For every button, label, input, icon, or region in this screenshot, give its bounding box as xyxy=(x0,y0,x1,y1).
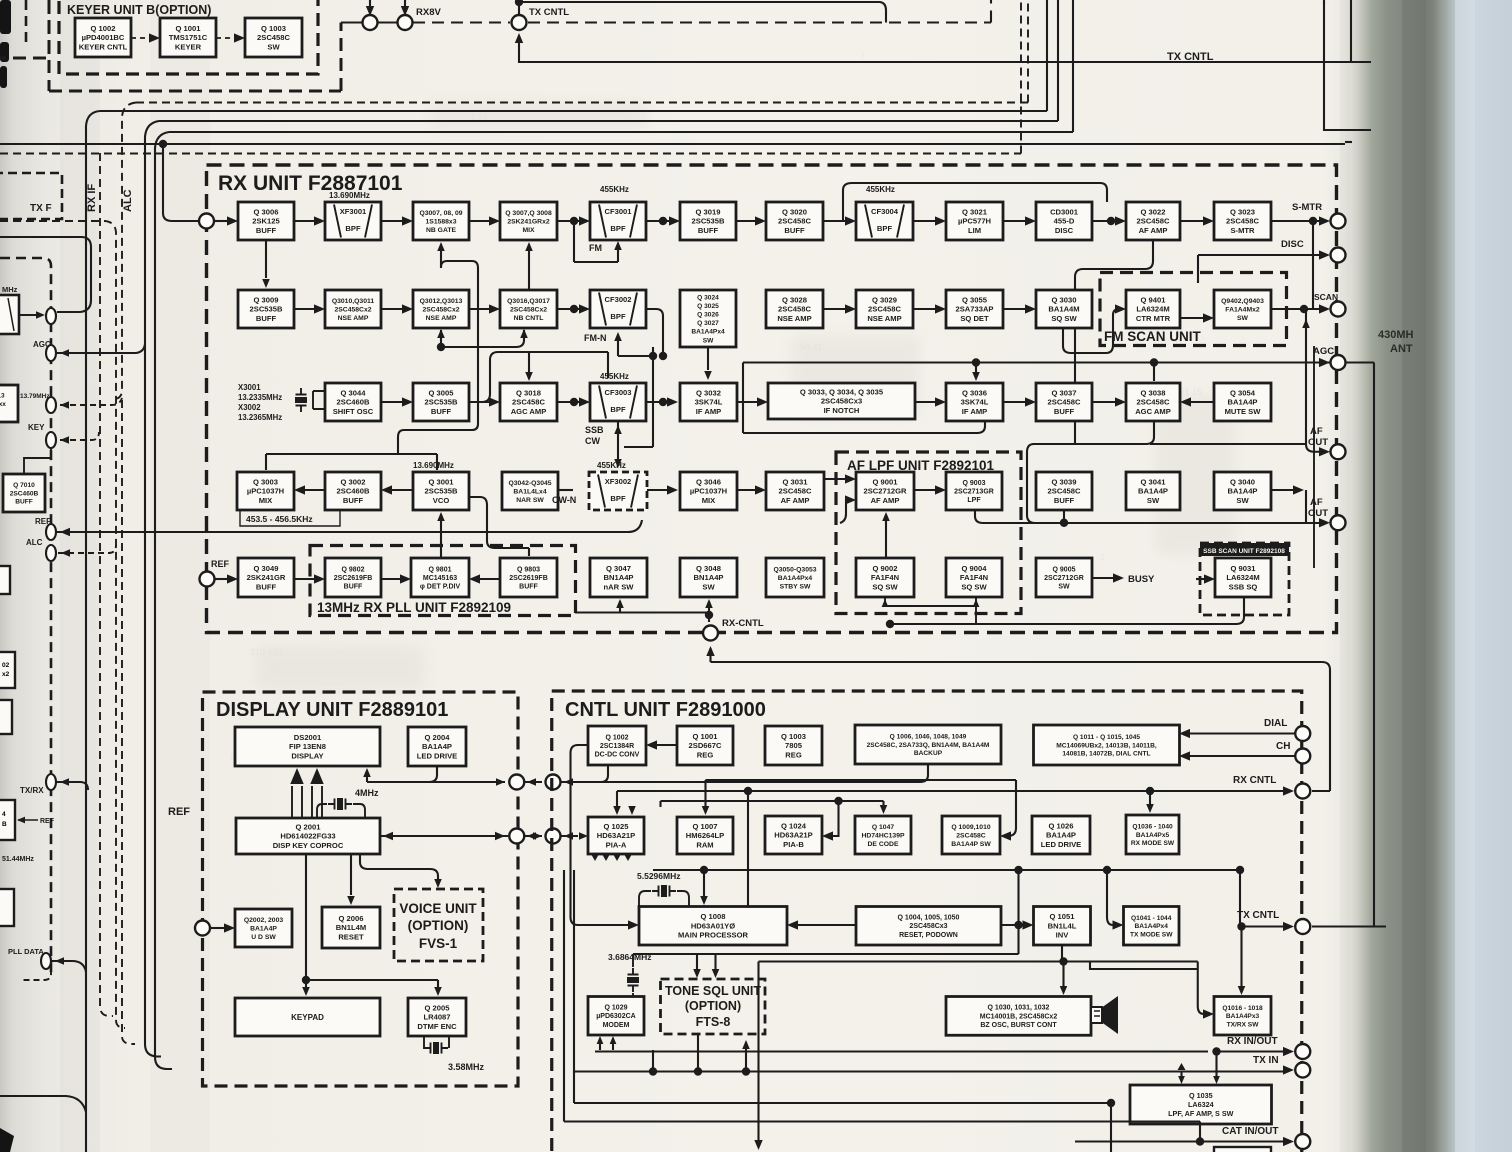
arrowhead down into KEYPAD top xyxy=(302,987,310,996)
svg-text:Q 1009,1010: Q 1009,1010 xyxy=(951,824,991,831)
wire Q3022 bottom drop to AF path xyxy=(1075,240,1153,444)
svg-text:BUFF: BUFF xyxy=(343,496,364,505)
svg-text:2: 2 xyxy=(1100,552,1105,562)
wire CF3003 in xyxy=(557,401,580,403)
svg-text:RAM: RAM xyxy=(696,840,713,849)
svg-text:BA1A4Px5: BA1A4Px5 xyxy=(1136,832,1170,839)
svg-text:DC-DC CONV: DC-DC CONV xyxy=(595,752,640,759)
wire Q1026 area to Q1016 xyxy=(1134,969,1198,977)
svg-text:TX/RX: TX/RX xyxy=(20,786,44,795)
arrowhead up into Q3047 xyxy=(616,599,624,608)
junction before CF3003 xyxy=(570,398,578,406)
svg-text:RX MODE SW: RX MODE SW xyxy=(1131,840,1175,847)
arrowhead into Q1008 right xyxy=(787,920,798,929)
wire Q3021-CD3001 arrowhead xyxy=(1025,216,1036,225)
svg-text:Q 3003: Q 3003 xyxy=(253,478,278,487)
junction CF3002 out xyxy=(649,352,657,360)
svg-text:Q 1035: Q 1035 xyxy=(1189,1091,1213,1100)
TX/RX switch Q1016-1018 xyxy=(1214,997,1271,1036)
wire NB CNTL up to MIX xyxy=(528,250,530,290)
junction after CF3003 xyxy=(659,398,667,406)
svg-text:nAR SW: nAR SW xyxy=(604,582,635,591)
svg-text:ALC: ALC xyxy=(26,538,43,547)
svg-text:SW: SW xyxy=(703,337,714,344)
wire CAT line xyxy=(1075,1122,1286,1142)
buffer Q9802 2SC2619FB xyxy=(325,558,381,597)
svg-text:FA1F4N: FA1F4N xyxy=(871,573,899,582)
svg-text:AF LPF UNIT F2892101: AF LPF UNIT F2892101 xyxy=(847,458,995,473)
arrowhead into Q9402 xyxy=(1203,313,1214,322)
junction RX IN/OUT xyxy=(1212,1047,1220,1055)
vertical wire right column x1314 xyxy=(1313,346,1315,568)
svg-text:Q 2004: Q 2004 xyxy=(425,733,451,742)
left connector oval KEY xyxy=(46,432,56,448)
left cut-off box d xyxy=(0,652,15,688)
connector circle c2 xyxy=(546,829,561,844)
Q1025 bottom bus arrows xyxy=(591,854,632,861)
wire DISC branch down to FM scan xyxy=(1197,255,1199,283)
wire IFNOTCH-Q3036 xyxy=(915,401,936,403)
svg-text:2SA733AP: 2SA733AP xyxy=(956,305,994,314)
svg-text:AGC: AGC xyxy=(1313,346,1334,357)
CAT IN/OUT connector xyxy=(1295,1134,1310,1149)
svg-text:DIAL: DIAL xyxy=(1264,718,1287,729)
svg-text:BUFF: BUFF xyxy=(1054,407,1075,416)
wire NSE1-NSE2 arrowhead xyxy=(402,304,413,313)
svg-text:Q 1006, 1046, 1048, 1049: Q 1006, 1046, 1048, 1049 xyxy=(890,734,967,741)
arrowhead into Q9003 xyxy=(935,485,946,494)
wire Q3036 bottom loop xyxy=(743,421,985,433)
arrowhead into Q3038 xyxy=(1115,397,1126,406)
AF OUT 2 connector xyxy=(1331,515,1346,530)
big arrowhead into DS2001 a xyxy=(290,768,303,784)
AF OUT connector xyxy=(1331,444,1346,459)
ceramic filter CF3002 xyxy=(590,290,646,328)
svg-text:KEYPAD: KEYPAD xyxy=(291,1013,324,1022)
svg-text:XF3001: XF3001 xyxy=(340,207,367,216)
wire KEY dashed xyxy=(60,432,99,440)
wire Q3006-XF3001 arrowhead xyxy=(314,216,325,225)
dashed wire RX8V to TX CNTL connector xyxy=(413,21,510,23)
TX IN connector xyxy=(1295,1063,1310,1078)
AGC amp Q3018 2SC458C xyxy=(500,383,557,421)
svg-text:2SC458Cx2: 2SC458Cx2 xyxy=(510,306,547,313)
arrowhead into TONE top b xyxy=(712,969,720,978)
junction RX-CNTL xyxy=(705,611,713,619)
svg-text:FTS-8: FTS-8 xyxy=(696,1015,731,1029)
svg-text:SCAN: SCAN xyxy=(1314,292,1338,302)
wire TX CNTL connector down and right xyxy=(519,37,1371,62)
svg-text:CNTL UNIT F2891000: CNTL UNIT F2891000 xyxy=(565,699,766,721)
arrowhead into TX IN connector xyxy=(1283,1065,1294,1074)
svg-text:Q 9004: Q 9004 xyxy=(962,564,988,573)
wire Q3022-Q3023 xyxy=(1180,220,1204,222)
wire NAR SW to XF area xyxy=(558,489,573,491)
wire CF3003 out xyxy=(646,401,668,403)
wire Q3037 to Q3038 xyxy=(1092,401,1116,403)
arrowhead right into circle c1 xyxy=(495,832,505,840)
svg-text:Q 3031: Q 3031 xyxy=(783,478,809,487)
svg-text:ANT: ANT xyxy=(1390,343,1413,355)
svg-text:2SC458Cx2: 2SC458Cx2 xyxy=(334,306,371,313)
ceramic filter CF3004 xyxy=(856,202,913,240)
svg-text:BA1A4M: BA1A4M xyxy=(1048,305,1079,314)
switch Q9005 2SC2712GR xyxy=(1036,558,1092,597)
svg-text:TX IN: TX IN xyxy=(1253,1055,1279,1066)
svg-text:Q 3033, Q 3034, Q 3035: Q 3033, Q 3034, Q 3035 xyxy=(800,388,884,397)
svg-text:13MHz RX PLL UNIT F2892109: 13MHz RX PLL UNIT F2892109 xyxy=(317,600,511,615)
svg-text:PIA-A: PIA-A xyxy=(606,840,627,849)
svg-text:MIX: MIX xyxy=(702,496,716,505)
svg-text:µPC577H: µPC577H xyxy=(958,217,991,226)
svg-text:2SK125: 2SK125 xyxy=(252,217,280,226)
svg-text:Q 1029: Q 1029 xyxy=(605,1005,628,1012)
svg-text:CAT IN/OUT: CAT IN/OUT xyxy=(1222,1126,1278,1137)
buffer Q3037 2SC458C xyxy=(1036,383,1092,421)
svg-text:Q 3038: Q 3038 xyxy=(1141,389,1166,398)
connector circle c4 xyxy=(546,775,561,790)
wire Q3019-Q3020 arrowhead xyxy=(755,216,766,225)
arrowhead into NSE AMP2 bottom xyxy=(437,329,445,338)
wire Q2005 to crystal xyxy=(423,1036,449,1048)
arrowhead into Q3031 xyxy=(755,485,766,494)
svg-text:LR4087: LR4087 xyxy=(423,1013,450,1022)
arrowhead into Q3018 xyxy=(489,397,500,406)
svg-text:Q 3002: Q 3002 xyxy=(341,478,366,487)
wire AGC line xyxy=(743,361,1330,363)
svg-text:SW: SW xyxy=(1147,496,1160,505)
wire buzzer feed xyxy=(1062,962,1064,987)
wire c1 to c2 xyxy=(524,835,542,837)
wire Q9401 to Q9402 xyxy=(1180,317,1204,319)
DISPLAY UNIT dashed boundary xyxy=(203,692,519,1086)
arrowhead into S-MTR connector xyxy=(1319,216,1330,225)
svg-text:Q 9031: Q 9031 xyxy=(1231,564,1257,573)
svg-text:455KHz: 455KHz xyxy=(600,372,629,381)
svg-text:Q 9005: Q 9005 xyxy=(1053,566,1076,573)
svg-text:NSE AMP: NSE AMP xyxy=(426,315,457,322)
svg-text:CW: CW xyxy=(585,436,600,446)
wire bus to RX input xyxy=(163,144,199,221)
TX CNTL connector cntl xyxy=(1295,919,1310,934)
wire AGC drop to Q3036 xyxy=(975,363,977,373)
svg-text:Q 3055: Q 3055 xyxy=(962,296,988,305)
arrowhead into Q1047 top xyxy=(880,805,888,814)
svg-text:Q 1003: Q 1003 xyxy=(781,732,806,741)
TX mode switch Q1041-1044 xyxy=(1124,907,1180,946)
NB control Q3016 Q3017 xyxy=(500,290,557,328)
svg-text:PLL DATA: PLL DATA xyxy=(8,947,44,956)
limiter Q3021 uPC577H xyxy=(946,202,1003,240)
arrowhead into Q3038 right xyxy=(1180,397,1191,406)
ceramic filter CF3001 xyxy=(590,202,646,240)
outer dashed boundary around keyer xyxy=(49,0,341,91)
svg-text:Q 9001: Q 9001 xyxy=(873,478,899,487)
arrowhead into ALC oval xyxy=(61,549,70,557)
junction TX IN a xyxy=(649,1067,657,1075)
svg-text:LIM: LIM xyxy=(968,226,981,235)
svg-text:FA1F4N: FA1F4N xyxy=(960,573,988,582)
svg-text:OUT: OUT xyxy=(1308,437,1328,448)
svg-text:AF: AF xyxy=(1310,497,1323,508)
wire ram top bus y780 xyxy=(706,779,1017,781)
svg-text:Q 3007,Q 3008: Q 3007,Q 3008 xyxy=(505,210,552,217)
svg-text:BPF: BPF xyxy=(345,224,361,233)
underline 453.5 label bracket xyxy=(240,511,340,526)
arrowhead into Q1016 top xyxy=(1238,986,1246,995)
svg-text:3.58MHz: 3.58MHz xyxy=(448,1062,485,1072)
left cut-off BPF box xyxy=(0,295,19,334)
wire reset to Q1051 xyxy=(1001,924,1023,926)
svg-text:2SD667C: 2SD667C xyxy=(689,741,722,750)
DTMF encoder Q2005 LR4087 xyxy=(408,998,466,1036)
svg-text:MC14001B, 2SC458Cx2: MC14001B, 2SC458Cx2 xyxy=(980,1013,1058,1020)
svg-text:2SC458C: 2SC458C xyxy=(512,398,545,407)
dashed wire Q1002 to Q1001 xyxy=(131,37,150,39)
wire Q9001 to Q9003 xyxy=(914,489,936,491)
VOICE UNIT text xyxy=(399,901,477,951)
wire NSE2-NBCNTL xyxy=(469,308,490,310)
svg-text:2SC458C: 2SC458C xyxy=(868,305,901,314)
wire FM-N select xyxy=(618,336,653,356)
arrowhead into c3 xyxy=(496,778,505,786)
arrowhead Q3040 out xyxy=(1293,485,1304,494)
svg-text:Q 3036: Q 3036 xyxy=(962,389,987,398)
svg-text:13.79MHz: 13.79MHz xyxy=(20,393,50,400)
wire into Q3049 xyxy=(214,578,228,580)
wire XF3002 to Q3046 xyxy=(647,489,668,491)
arrowhead into TONE top a xyxy=(693,969,701,978)
modem Q1029 uPD6302CA xyxy=(588,997,644,1036)
arrowhead into SCAN connector xyxy=(1319,304,1330,313)
connector circle c1 xyxy=(509,829,524,844)
arrowhead into KEY oval xyxy=(60,436,69,444)
svg-text:Q 3009: Q 3009 xyxy=(254,296,279,305)
wire Q3006 down to Q3009 xyxy=(265,240,267,278)
svg-text:4MHz: 4MHz xyxy=(355,788,379,798)
wire Q3028-Q3029 arrowhead xyxy=(845,304,856,313)
svg-text:TX F: TX F xyxy=(30,203,52,214)
svg-text:51.44MHz: 51.44MHz xyxy=(2,856,34,863)
svg-text:TX MODE SW: TX MODE SW xyxy=(1130,931,1173,938)
junction y961 xyxy=(1059,957,1067,965)
svg-text:Q2002, 2003: Q2002, 2003 xyxy=(244,917,284,924)
TX IF unit corner box xyxy=(0,173,62,219)
double arrow Q1035 xyxy=(1178,1063,1186,1070)
buffer Q3019 2SC535B xyxy=(680,202,736,240)
svg-text:U D SW: U D SW xyxy=(251,934,276,941)
left cut-off box g xyxy=(0,889,14,926)
wire Q9005 to BUSY xyxy=(1092,577,1116,579)
svg-text:2SC458C: 2SC458C xyxy=(1137,217,1170,226)
svg-text:Q 1011 - Q 1015, 1045: Q 1011 - Q 1015, 1045 xyxy=(1073,734,1140,741)
svg-text:BUFF: BUFF xyxy=(784,226,805,235)
PIA-B Q1024 HD63A21P xyxy=(765,816,822,854)
svg-text:NB CNTL: NB CNTL xyxy=(514,315,544,322)
SCAN connector xyxy=(1331,302,1346,317)
faint scan bleed-through artifacts xyxy=(230,52,1202,762)
svg-text:2SC2712GR: 2SC2712GR xyxy=(1044,575,1084,582)
mixer Q3007 Q3008 2SK241GRx2 xyxy=(500,202,557,240)
svg-text:HD63A21P: HD63A21P xyxy=(774,831,812,840)
crystal 3.6864MHz xyxy=(627,968,639,992)
shift oscillator Q3044 2SC460B xyxy=(325,383,381,421)
svg-text:VOICE UNIT: VOICE UNIT xyxy=(399,901,477,916)
bus wire solid 4 (TX line) xyxy=(0,143,1345,145)
svg-text:Q 1047: Q 1047 xyxy=(872,824,895,831)
wire to Q1047 top xyxy=(882,801,884,806)
arrowhead into CF3001 xyxy=(579,216,590,225)
svg-text:2SC458Cx3: 2SC458Cx3 xyxy=(909,923,947,930)
arrowhead into Q3009 xyxy=(262,279,270,288)
svg-text:KEYER UNIT B(OPTION): KEYER UNIT B(OPTION) xyxy=(67,3,211,17)
wire crystal to Q1008 xyxy=(639,891,689,906)
wire SQ SW bottoms xyxy=(885,598,976,624)
arrowhead into Q2002 xyxy=(224,923,235,932)
LPF Q9003 2SC2713GR xyxy=(946,472,1002,510)
switch Q3041 BA1A4P xyxy=(1126,472,1180,510)
arrowhead into Q1009 right xyxy=(1000,831,1011,840)
arrowhead into Q9801 right xyxy=(469,574,480,583)
left connector oval PLL DATA xyxy=(41,953,51,969)
svg-text:BA1A4Px4: BA1A4Px4 xyxy=(691,329,725,336)
wire mode to SSB-CW xyxy=(624,446,653,448)
arrowhead up into Q3048 xyxy=(705,599,713,608)
svg-text:4: 4 xyxy=(2,811,6,818)
arrowhead into RX IN/OUT connector xyxy=(1283,1047,1294,1056)
arrowhead into Q3049 xyxy=(227,574,238,583)
junction above TX CNTL connector xyxy=(515,0,523,6)
main processor Q1008 HD63A01Y# xyxy=(639,907,787,946)
wire REF solid xyxy=(57,520,642,532)
bus wire dashed top xyxy=(136,0,1028,103)
RX input connector xyxy=(199,214,214,229)
wire long y961 xyxy=(759,962,1205,1015)
arrowhead into Q3006 xyxy=(227,216,238,225)
big arrowhead into DS2001 b xyxy=(310,768,323,784)
arrowhead down into RX8V connector xyxy=(401,6,409,16)
ceramic filter CF3003 xyxy=(590,383,646,421)
wire Q3029-Q3055 xyxy=(913,308,936,310)
svg-text:455KHz: 455KHz xyxy=(600,185,629,194)
svg-text:Q 9803: Q 9803 xyxy=(517,566,540,573)
buffer Q3020 2SC458C xyxy=(766,202,823,240)
arrowhead into Q3003 xyxy=(294,485,305,494)
svg-text:BA1A4Px4: BA1A4Px4 xyxy=(778,575,813,582)
svg-text:PIA-B: PIA-B xyxy=(783,840,804,849)
wire Q3009-NSE1 xyxy=(294,308,315,310)
wire Q3036-Q3037 arrowhead xyxy=(1025,397,1036,406)
left connector oval TX/RX xyxy=(46,774,56,790)
svg-text:Q 1001: Q 1001 xyxy=(176,24,202,33)
svg-text:2SC458C: 2SC458C xyxy=(257,33,290,42)
svg-text:FM SCAN UNIT: FM SCAN UNIT xyxy=(1104,329,1201,344)
wire oval a loop above xyxy=(0,237,91,312)
arrowhead down into connector a xyxy=(366,6,374,16)
svg-text:Q 3005: Q 3005 xyxy=(429,389,455,398)
arrowhead right into c2 xyxy=(533,832,542,840)
wire Q1002 to main proc xyxy=(571,745,630,925)
scanner edge marks top-left xyxy=(0,0,11,88)
svg-text:MAIN PROCESSOR: MAIN PROCESSOR xyxy=(678,931,749,940)
wire CD3001 to Q3022 xyxy=(1092,220,1116,222)
wire CF3004 input xyxy=(823,220,846,222)
svg-text:RX UNIT F2887101: RX UNIT F2887101 xyxy=(218,172,403,195)
svg-text:MIX: MIX xyxy=(522,227,535,234)
connector circle c3 xyxy=(509,775,524,790)
wire 13MHz dashed xyxy=(60,398,122,405)
junction below Q3039 xyxy=(1060,519,1068,527)
arrowhead bottom left cntl xyxy=(754,1140,762,1150)
svg-text:LED DRIVE: LED DRIVE xyxy=(417,751,458,760)
crystal filter XF3001 xyxy=(325,202,381,240)
wire x1107 to Q1041 xyxy=(1107,870,1113,925)
svg-text:KEY: KEY xyxy=(28,423,45,432)
svg-text:Q 3049: Q 3049 xyxy=(254,564,279,573)
left cut-off box f xyxy=(0,800,15,840)
arrowhead into KEYPAD xyxy=(305,995,307,997)
wire Q3022-Q3023 arrowhead xyxy=(1203,216,1214,225)
svg-text:2SC535B: 2SC535B xyxy=(425,487,458,496)
junction CF3001 out xyxy=(659,217,667,225)
svg-text:STBY SW: STBY SW xyxy=(780,583,811,590)
squelch switch Q3030 BA1A4M xyxy=(1036,290,1092,328)
mode switch Q3024-Q3027 xyxy=(680,290,736,347)
arrowhead into Q1002 xyxy=(646,740,657,749)
wire Q1001 to Q1002 xyxy=(656,744,677,746)
wire CF3002 in junction xyxy=(557,308,580,310)
svg-text:BZ OSC, BURST CONT: BZ OSC, BURST CONT xyxy=(980,1022,1057,1029)
wire tone bus y954 xyxy=(633,953,1019,955)
svg-text:BUSY: BUSY xyxy=(1128,574,1155,585)
svg-text:13.2365MHz: 13.2365MHz xyxy=(238,413,282,422)
svg-text:Q 3018: Q 3018 xyxy=(516,389,541,398)
wire AF line lower xyxy=(975,510,1296,523)
arrowhead into 13MHz oval xyxy=(60,401,69,409)
S-meter amp Q3023 2SC458C xyxy=(1214,202,1271,240)
crystal 3.58MHz xyxy=(424,1042,448,1054)
svg-text:Q 3019: Q 3019 xyxy=(696,208,721,217)
wire AGC stub left xyxy=(742,363,744,434)
13MHz RX PLL UNIT dashed boundary xyxy=(310,546,576,616)
svg-text:Q 2005: Q 2005 xyxy=(425,1004,451,1013)
svg-text:SW: SW xyxy=(267,42,280,51)
svg-text:2SC458C: 2SC458C xyxy=(1048,398,1081,407)
connector circle RX8V xyxy=(398,15,413,30)
svg-text:REG: REG xyxy=(785,750,802,759)
svg-text:Q1036 - 1040: Q1036 - 1040 xyxy=(1132,824,1173,831)
VCO Q3001 2SC535B xyxy=(413,472,469,510)
wire AF line y444 to right xyxy=(1150,443,1306,445)
svg-text:Q 3040: Q 3040 xyxy=(1230,478,1255,487)
arrowhead left into c4 xyxy=(564,778,573,786)
svg-text:BN1A4P: BN1A4P xyxy=(604,573,634,582)
wire Q7010 up xyxy=(24,448,51,474)
arrowhead left toward c1 xyxy=(527,832,536,840)
svg-text:X3002: X3002 xyxy=(238,403,261,412)
wire Q9802-Q9801 xyxy=(381,578,401,580)
svg-text:BPF: BPF xyxy=(877,224,893,233)
arrowhead into Q1025 top a xyxy=(613,806,621,815)
svg-text:SW: SW xyxy=(1236,496,1249,505)
wire Q3023 to S-MTR connector xyxy=(1271,220,1322,222)
svg-text:BACKUP: BACKUP xyxy=(914,750,943,757)
wire pia bus y791 xyxy=(617,790,748,792)
switch Q3048 BN1A4P xyxy=(680,558,737,597)
svg-text:Q 3023: Q 3023 xyxy=(1230,208,1255,217)
wire MIX to CF3001 with junction xyxy=(557,220,580,222)
RX mode switch Q1036-1040 xyxy=(1126,815,1179,854)
